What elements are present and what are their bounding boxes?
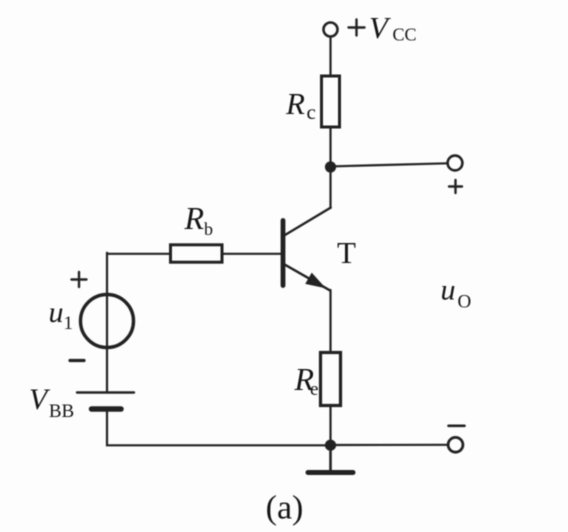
- wire left vertical through source: [106, 253, 108, 393]
- transistor T emitter arrow: [306, 274, 325, 288]
- wire Re to node: [329, 406, 331, 446]
- transistor T base bar: [281, 221, 286, 286]
- node emitter junction: [325, 440, 336, 451]
- wire Rb to left corner: [107, 253, 171, 255]
- transistor T collector diagonal: [283, 208, 331, 237]
- terminal +VCC: [324, 23, 338, 37]
- ground bar: [308, 470, 353, 475]
- plus sign VCC: [349, 20, 365, 36]
- svg-text:(a): (a): [266, 490, 304, 527]
- svg-text:Rb: Rb: [184, 200, 214, 239]
- battery VBB short plate: [92, 406, 122, 412]
- wire battery to bottom rail: [107, 409, 326, 445]
- source u1 circle: [81, 295, 134, 348]
- svg-text:VCC: VCC: [369, 10, 416, 45]
- terminal output -: [448, 437, 463, 452]
- wire node to output + terminal: [335, 163, 447, 166]
- terminal output +: [448, 156, 463, 171]
- transistor T emitter diagonal: [283, 263, 331, 290]
- wire collector vertical: [329, 167, 331, 208]
- resistor Rb: [171, 245, 223, 262]
- ground stem: [329, 449, 332, 471]
- minus sign output: [449, 424, 465, 427]
- svg-text:uO: uO: [441, 274, 472, 313]
- svg-text:T: T: [337, 235, 356, 270]
- svg-text:Re: Re: [294, 361, 319, 400]
- plus sign source: [72, 272, 87, 287]
- minus sign source: [70, 359, 84, 362]
- resistor Rc: [322, 76, 340, 127]
- wire node to output - terminal: [335, 444, 448, 446]
- wire Rc to collector node: [329, 127, 331, 167]
- svg-text:Rc: Rc: [285, 86, 316, 124]
- wire emitter vertical: [329, 290, 331, 353]
- wire base: [222, 253, 281, 255]
- battery VBB long plate: [77, 391, 134, 393]
- resistor Re: [321, 353, 341, 406]
- svg-text:VBB: VBB: [29, 383, 74, 422]
- node collector junction: [325, 161, 336, 172]
- svg-text:u1: u1: [49, 296, 74, 334]
- plus sign output: [449, 180, 462, 193]
- wire VCC to Rc: [329, 37, 331, 76]
